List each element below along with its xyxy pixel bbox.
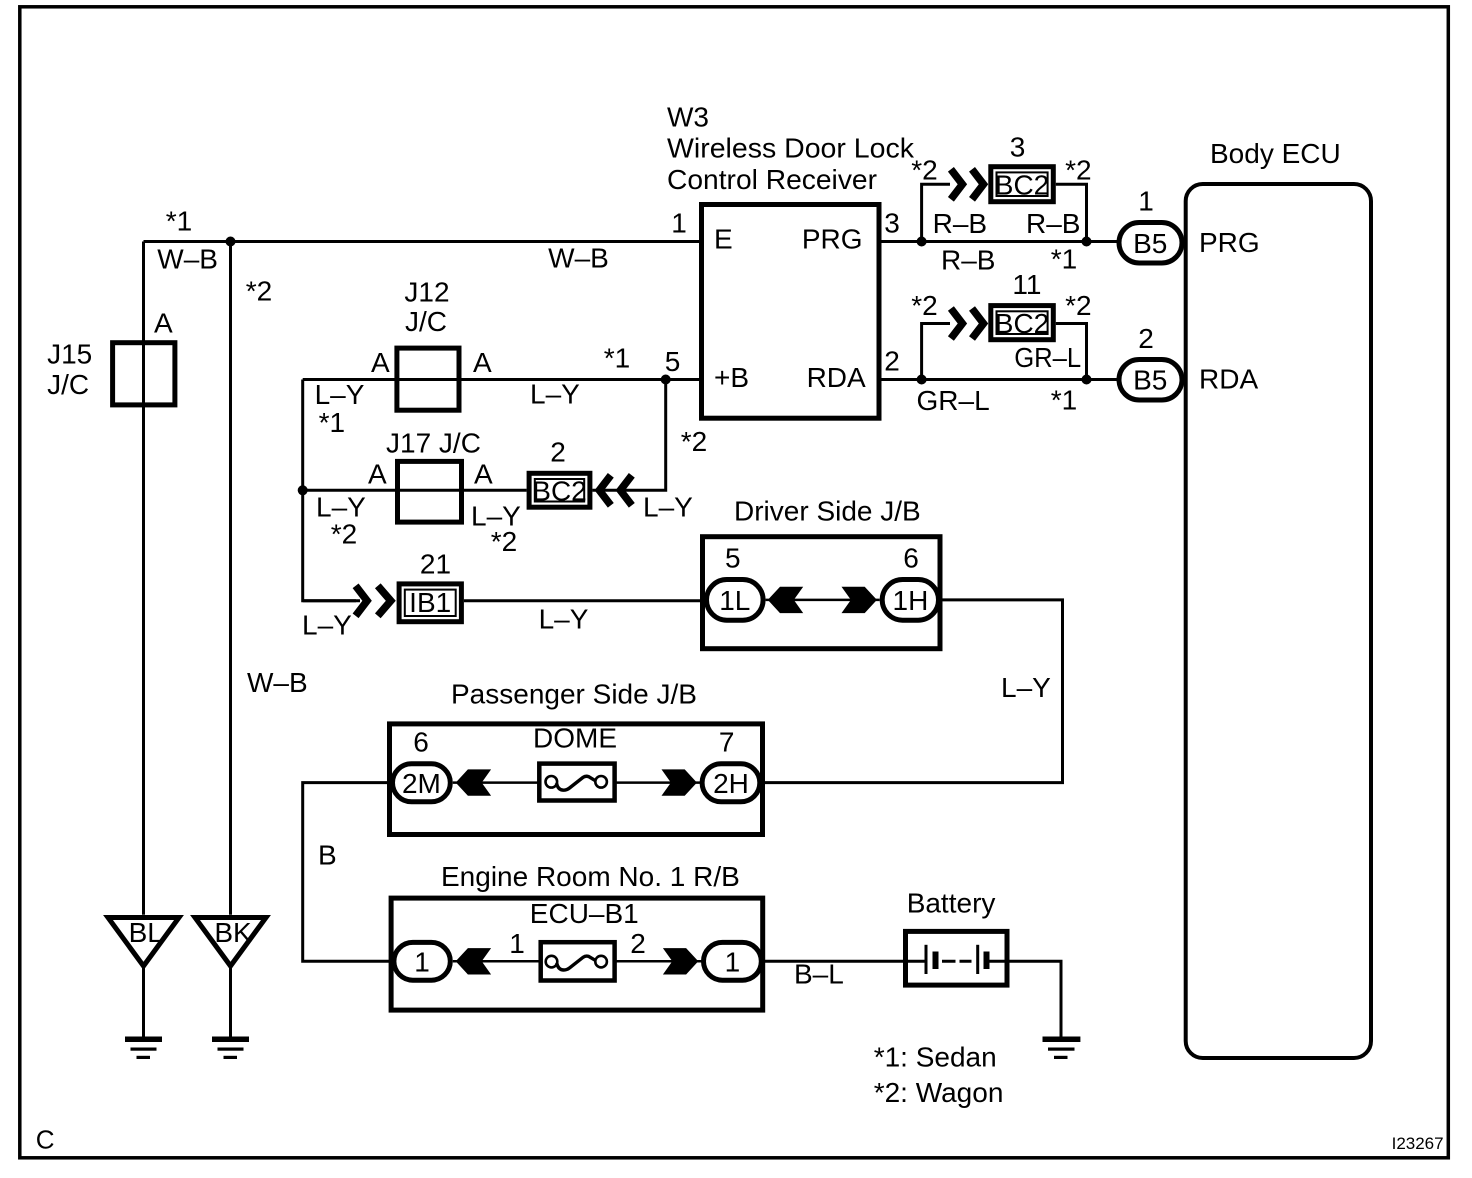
wire R-B wagon bypass loop right (1056, 184, 1087, 241)
svg-text:BL: BL (129, 917, 163, 948)
arrow chevrons out of BC2 (2) pointing left (599, 475, 632, 505)
svg-text:2: 2 (550, 436, 566, 467)
node junction dot +B branch (661, 375, 671, 385)
svg-text:A: A (371, 347, 390, 378)
fuse DOME box (539, 764, 614, 801)
svg-text:*1: *1 (1051, 384, 1077, 415)
wire B-L from Engine R/B to Battery (764, 960, 903, 963)
arrow filled right-pointing in Driver J/B (842, 587, 877, 613)
svg-text:Driver Side J/B: Driver Side J/B (734, 495, 921, 526)
svg-text:DOME: DOME (533, 722, 617, 753)
svg-text:Wireless Door Lock: Wireless Door Lock (667, 133, 915, 164)
component Engine Room No. 1 R/B box (391, 898, 763, 1010)
component Battery box (906, 931, 1008, 985)
svg-text:*2: *2 (911, 154, 937, 185)
svg-text:3: 3 (884, 207, 900, 238)
svg-text:*2: Wagon: *2: Wagon (874, 1077, 1004, 1108)
wire from Battery to ground (1010, 961, 1062, 1039)
svg-text:C: C (36, 1125, 55, 1155)
svg-text:B5: B5 (1133, 228, 1167, 259)
ground symbol under battery (1043, 1037, 1081, 1060)
svg-text:W–B: W–B (247, 667, 308, 698)
svg-text:21: 21 (420, 548, 451, 579)
svg-text:GR–L: GR–L (917, 385, 990, 416)
wire GR-L wagon bypass loop left (922, 324, 950, 380)
svg-text:*2: *2 (681, 426, 707, 457)
svg-text:*1: *1 (1051, 243, 1077, 274)
svg-text:11: 11 (1012, 269, 1041, 300)
svg-text:I23267: I23267 (1392, 1134, 1444, 1153)
svg-text:R–B: R–B (941, 244, 995, 275)
arrow chevrons into BC2 (3) (951, 169, 984, 199)
wire W-B from J15 column to receiver pin E (144, 240, 702, 243)
svg-text:PRG: PRG (802, 224, 863, 255)
svg-text:J/C: J/C (405, 306, 447, 337)
svg-text:*1: *1 (319, 407, 345, 438)
svg-text:L–Y: L–Y (643, 491, 693, 522)
wire inside Driver J/B between 1L and 1H (766, 599, 880, 602)
svg-text:BC2: BC2 (995, 170, 1049, 201)
svg-text:*1: *1 (166, 206, 192, 237)
arrow chevrons into BC2 (11) (951, 309, 984, 339)
svg-text:J17 J/C: J17 J/C (386, 427, 481, 458)
svg-text:2: 2 (1138, 323, 1154, 354)
connector 1H oval (882, 580, 938, 621)
connector 2H oval (702, 764, 760, 802)
svg-text:*1: *1 (604, 342, 630, 373)
battery internal wire left (903, 960, 926, 963)
node junction dot J17 row (298, 485, 308, 495)
svg-text:BC2: BC2 (532, 476, 586, 507)
svg-text:B–L: B–L (794, 958, 844, 989)
wire L-Y to IB1 chevrons (303, 599, 360, 602)
svg-text:Passenger Side J/B: Passenger Side J/B (451, 678, 697, 709)
svg-text:7: 7 (719, 727, 735, 758)
wire BL triangle to ground (142, 966, 145, 1039)
wire L-Y left vertical branch (303, 380, 356, 601)
connector 1L oval (707, 580, 764, 621)
component Driver Side J/B box (703, 537, 941, 649)
svg-text:GR–L: GR–L (1014, 342, 1081, 373)
svg-text:*2: *2 (911, 290, 937, 321)
svg-text:+B: +B (714, 362, 749, 393)
wire inside Engine R/B left segment (453, 960, 546, 963)
svg-text:A: A (368, 458, 387, 489)
svg-text:*2: *2 (331, 518, 357, 549)
wire B from 2M to Engine Room R/B (303, 783, 394, 962)
svg-text:L–Y: L–Y (1001, 672, 1051, 703)
svg-text:5: 5 (665, 346, 681, 377)
node junction dot PRG right (1082, 237, 1092, 247)
svg-text:2M: 2M (402, 768, 441, 799)
connector BC2 pin 2 box (529, 473, 590, 507)
svg-text:W3: W3 (667, 102, 709, 133)
svg-text:BK: BK (214, 917, 252, 948)
component Passenger Side J/B box (390, 724, 763, 835)
svg-text:R–B: R–B (1026, 208, 1080, 239)
wire W-B *2 vertical down to BK ground triangle (229, 242, 232, 915)
wire inside Passenger J/B right segment (606, 781, 702, 784)
svg-text:ECU–B1: ECU–B1 (530, 898, 639, 929)
svg-text:L–Y: L–Y (539, 603, 589, 634)
wire L-Y sedan row through J12 (303, 378, 702, 381)
svg-text:3: 3 (1010, 131, 1026, 162)
svg-text:J15: J15 (47, 339, 92, 370)
battery cell plates (926, 945, 987, 974)
svg-text:Battery: Battery (907, 887, 996, 918)
svg-text:*2: *2 (1065, 154, 1091, 185)
wire R-B wagon bypass loop left (922, 184, 950, 241)
svg-text:2H: 2H (713, 768, 749, 799)
svg-text:2: 2 (630, 928, 646, 959)
svg-text:BC2: BC2 (995, 308, 1049, 339)
svg-text:B5: B5 (1133, 365, 1167, 396)
svg-text:J/C: J/C (47, 369, 89, 400)
svg-text:1: 1 (414, 947, 430, 978)
svg-text:RDA: RDA (1199, 364, 1258, 395)
ground triangle BL (108, 917, 179, 966)
svg-text:1: 1 (725, 947, 741, 978)
component Body ECU box (1186, 184, 1371, 1058)
arrow chevrons into IB1 pointing right (356, 586, 391, 616)
ground symbol BK (212, 1037, 249, 1060)
svg-text:1: 1 (509, 928, 525, 959)
arrow filled right-pointing in Passenger J/B (662, 769, 697, 795)
svg-text:1: 1 (1138, 186, 1154, 217)
svg-text:L–Y: L–Y (302, 609, 352, 640)
svg-text:W–B: W–B (548, 243, 609, 274)
wire inside Passenger J/B left segment (453, 781, 546, 784)
wire L-Y from BC2 (2) to +B junction (592, 380, 665, 491)
svg-text:1: 1 (671, 207, 687, 238)
svg-text:5: 5 (725, 542, 741, 573)
connector IB1 box (399, 584, 461, 622)
connector 1 oval right (704, 942, 762, 980)
svg-text:PRG: PRG (1199, 227, 1260, 258)
wire R-B from PRG pin to B5 (879, 240, 1118, 243)
svg-text:IB1: IB1 (409, 587, 451, 618)
connector 1 oval left (394, 942, 450, 980)
svg-text:W–B: W–B (157, 243, 218, 274)
svg-text:B: B (318, 839, 337, 870)
svg-text:1H: 1H (893, 585, 929, 616)
wire W-B *1 vertical down to BL ground triangle (142, 242, 145, 915)
svg-text:Engine Room No. 1 R/B: Engine Room No. 1 R/B (441, 861, 740, 892)
wire L-Y from 1H to 2H via right column (762, 600, 1062, 783)
wire L-Y from IB1 to Driver Side J/B (464, 599, 706, 602)
svg-text:6: 6 (413, 727, 429, 758)
arrow filled right-pointing in Engine R/B (663, 948, 698, 974)
svg-text:*2: *2 (1065, 290, 1091, 321)
connector BC2 pin 3 box (991, 167, 1054, 202)
svg-text:A: A (154, 308, 173, 339)
svg-text:Control Receiver: Control Receiver (667, 164, 877, 195)
svg-text:E: E (714, 224, 733, 255)
fuse ECU-B1 box (541, 942, 615, 980)
svg-text:A: A (473, 347, 492, 378)
svg-text:*1: Sedan: *1: Sedan (874, 1042, 997, 1073)
component W3 receiver box (702, 205, 880, 419)
wire GR-L wagon bypass loop right (1056, 324, 1087, 380)
svg-text:6: 6 (903, 542, 919, 573)
svg-text:A: A (474, 458, 493, 489)
arrow filled left-pointing in Driver J/B (768, 587, 803, 613)
svg-text:*2: *2 (491, 526, 517, 557)
ground triangle BK (195, 917, 266, 966)
connector B5 oval PRG (1119, 223, 1182, 264)
svg-text:L–Y: L–Y (530, 378, 580, 409)
node junction dot PRG left (917, 237, 927, 247)
svg-text:2: 2 (884, 346, 900, 377)
wire BK triangle to ground (229, 966, 232, 1039)
svg-text:R–B: R–B (933, 208, 987, 239)
junction connector J12 box (397, 348, 459, 410)
node junction dot RDA right (1082, 375, 1092, 385)
svg-text:1L: 1L (719, 585, 750, 616)
junction connector J17 box (398, 461, 462, 522)
svg-text:Body ECU: Body ECU (1210, 138, 1341, 169)
connector BC2 pin 11 box (991, 306, 1054, 340)
wire L-Y wagon row through J17 (303, 489, 527, 492)
connector B5 oval RDA (1119, 360, 1182, 401)
arrow filled left-pointing in Engine R/B (456, 948, 491, 974)
svg-text:RDA: RDA (807, 362, 866, 393)
svg-text:J12: J12 (404, 277, 449, 308)
svg-text:L–Y: L–Y (315, 379, 365, 410)
ground symbol BL (125, 1037, 162, 1060)
battery internal wire right (987, 960, 1010, 963)
junction connector J15 box (113, 343, 175, 405)
svg-text:*2: *2 (246, 276, 272, 307)
node junction dot RDA left (917, 375, 927, 385)
wire inside Engine R/B right segment (606, 960, 704, 963)
arrow filled left-pointing in Passenger J/B (456, 769, 491, 795)
node junction dot W-B branch (226, 237, 236, 247)
wire GR-L from RDA pin to B5 (879, 378, 1118, 381)
connector 2M oval (393, 764, 451, 802)
